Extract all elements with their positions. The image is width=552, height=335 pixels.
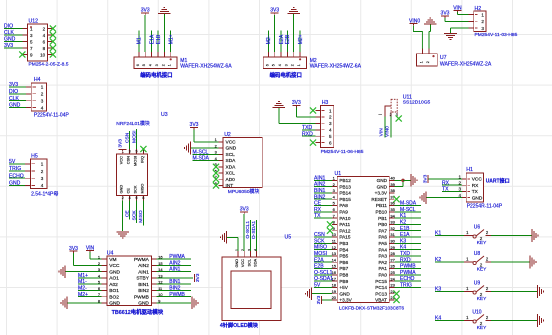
svg-text:M2-: M2- [266, 35, 272, 44]
svg-text:IRQ: IRQ [139, 156, 144, 163]
svg-text:KEY: KEY [477, 325, 487, 331]
svg-text:PB4: PB4 [339, 247, 348, 252]
svg-text:U2: U2 [224, 132, 231, 138]
svg-text:H4: H4 [34, 77, 41, 83]
svg-text:PB5: PB5 [339, 254, 348, 259]
svg-text:SCL: SCL [226, 152, 236, 158]
svg-text:PM254V-11-03-H85: PM254V-11-03-H85 [475, 32, 518, 38]
svg-text:PB10: PB10 [376, 210, 388, 215]
svg-text:+3.3V: +3.3V [375, 191, 388, 196]
svg-text:KEY: KEY [477, 296, 487, 302]
svg-text:40: 40 [390, 176, 395, 181]
svg-text:3: 3 [329, 121, 332, 126]
svg-text:PA11: PA11 [339, 222, 350, 227]
svg-text:PA12: PA12 [339, 228, 351, 233]
svg-text:32: 32 [390, 226, 395, 231]
svg-text:PC13: PC13 [375, 291, 387, 296]
svg-text:GND: GND [377, 184, 388, 189]
svg-text:6: 6 [136, 196, 138, 200]
svg-text:2: 2 [161, 64, 165, 66]
svg-text:LCKFB-DKX-STM32F103C8T6: LCKFB-DKX-STM32F103C8T6 [339, 305, 405, 310]
svg-text:1: 1 [41, 162, 44, 167]
svg-text:U9: U9 [474, 281, 481, 287]
svg-text:30: 30 [390, 239, 395, 244]
svg-text:WAFER-XH254WZ-2A: WAFER-XH254WZ-2A [440, 61, 492, 67]
svg-text:PB6: PB6 [339, 260, 348, 265]
svg-text:E2A: E2A [279, 34, 285, 44]
svg-text:H5: H5 [31, 154, 38, 160]
svg-text:1: 1 [168, 64, 172, 66]
svg-text:2: 2 [291, 64, 295, 66]
svg-text:VIN: VIN [378, 128, 384, 137]
svg-text:KEY: KEY [477, 267, 487, 273]
svg-text:BO2: BO2 [109, 294, 119, 300]
svg-text:CE: CE [126, 188, 131, 194]
svg-text:4: 4 [149, 64, 153, 66]
svg-text:3V3: 3V3 [422, 174, 428, 183]
svg-text:BO1: BO1 [109, 288, 119, 294]
svg-text:4针脚OLED模块: 4针脚OLED模块 [220, 321, 259, 329]
svg-text:PB0: PB0 [378, 222, 387, 227]
svg-text:GND: GND [109, 269, 120, 275]
svg-text:MISO: MISO [139, 184, 144, 194]
svg-text:26: 26 [390, 264, 395, 269]
svg-text:PA1: PA1 [378, 266, 387, 271]
svg-text:38: 38 [390, 188, 395, 193]
svg-text:PB7: PB7 [339, 266, 348, 271]
svg-text:3: 3 [129, 150, 131, 154]
svg-text:3V3: 3V3 [195, 273, 201, 282]
svg-text:31: 31 [390, 232, 395, 237]
svg-text:PA3: PA3 [378, 254, 387, 259]
svg-text:8: 8 [142, 196, 144, 200]
svg-text:6: 6 [265, 64, 269, 66]
svg-text:PB11: PB11 [376, 203, 388, 208]
svg-text:A02: A02 [109, 282, 118, 288]
svg-text:M1-: M1- [137, 35, 143, 44]
svg-text:U8: U8 [474, 251, 481, 257]
svg-text:M2+: M2+ [298, 34, 304, 44]
svg-text:KEY: KEY [477, 240, 487, 246]
svg-text:1: 1 [419, 61, 423, 63]
svg-text:PA7: PA7 [378, 228, 387, 233]
svg-text:PA2: PA2 [378, 260, 387, 265]
svg-text:5: 5 [329, 134, 332, 139]
svg-text:PA4: PA4 [378, 247, 387, 252]
svg-text:E2B: E2B [285, 34, 291, 44]
svg-text:CSN: CSN [126, 156, 131, 164]
svg-text:SDA: SDA [253, 258, 258, 266]
svg-text:PA15: PA15 [339, 235, 351, 240]
svg-text:PM254V-11-06-H85: PM254V-11-06-H85 [321, 149, 364, 155]
svg-text:编码电机接口: 编码电机接口 [140, 71, 172, 79]
svg-text:GND: GND [234, 259, 239, 268]
svg-text:STBY: STBY [136, 276, 149, 282]
svg-text:GND: GND [472, 195, 483, 201]
svg-text:GND: GND [119, 185, 124, 194]
svg-text:2: 2 [122, 196, 124, 200]
svg-text:编码电机接口: 编码电机接口 [270, 71, 302, 79]
svg-text:20: 20 [332, 295, 337, 300]
svg-text:14: 14 [332, 257, 337, 262]
svg-text:27: 27 [390, 257, 395, 262]
svg-text:U12: U12 [29, 18, 39, 24]
svg-text:VCC: VCC [119, 156, 124, 164]
svg-text:SDA: SDA [226, 158, 237, 164]
svg-text:VCC: VCC [226, 140, 237, 146]
svg-text:AIN2: AIN2 [138, 263, 149, 269]
svg-text:BIN2: BIN2 [138, 288, 149, 294]
svg-text:PC14: PC14 [375, 285, 387, 290]
svg-text:29: 29 [390, 245, 395, 250]
svg-text:2: 2 [481, 19, 484, 24]
svg-text:SS12D10G5: SS12D10G5 [403, 100, 431, 106]
svg-text:1: 1 [41, 85, 44, 90]
svg-text:MISO: MISO [138, 210, 144, 223]
svg-text:E1A: E1A [149, 34, 155, 44]
svg-text:3: 3 [284, 64, 288, 66]
svg-text:VBAT: VBAT [375, 298, 387, 303]
svg-text:PC15: PC15 [375, 279, 387, 284]
svg-text:18: 18 [332, 283, 337, 288]
svg-text:15: 15 [332, 264, 337, 269]
svg-text:O-SDA1: O-SDA1 [251, 221, 257, 239]
svg-text:RX: RX [472, 183, 479, 189]
svg-text:GND: GND [377, 178, 388, 183]
svg-text:25: 25 [390, 270, 395, 275]
svg-text:VM: VM [109, 257, 116, 263]
svg-text:13: 13 [332, 251, 337, 256]
svg-text:AIN1: AIN1 [138, 269, 149, 275]
svg-text:GND: GND [109, 301, 120, 307]
svg-text:33: 33 [390, 220, 395, 225]
svg-text:+3.3V: +3.3V [339, 298, 352, 303]
svg-text:2: 2 [426, 61, 430, 63]
svg-text:MOSI: MOSI [133, 156, 138, 166]
svg-text:XDA: XDA [226, 165, 237, 171]
svg-text:PB15: PB15 [339, 197, 351, 202]
svg-text:2: 2 [41, 92, 44, 97]
svg-text:28: 28 [390, 251, 395, 256]
svg-text:M1+: M1+ [169, 34, 175, 44]
svg-text:E1B: E1B [156, 34, 162, 44]
svg-text:TB6612电机驱动模块: TB6612电机驱动模块 [112, 308, 164, 316]
svg-text:3V3: 3V3 [117, 139, 123, 148]
svg-text:NRF24L01模块: NRF24L01模块 [116, 120, 150, 127]
svg-text:5: 5 [142, 64, 146, 66]
svg-text:U4: U4 [107, 250, 114, 256]
svg-text:6: 6 [136, 64, 140, 66]
svg-text:PWMB: PWMB [134, 294, 149, 300]
svg-text:PB1: PB1 [378, 216, 387, 221]
svg-text:RESET: RESET [371, 197, 387, 202]
svg-text:VCC: VCC [472, 177, 483, 183]
svg-text:PB8: PB8 [339, 273, 348, 278]
svg-text:5: 5 [136, 150, 138, 154]
svg-text:3: 3 [41, 99, 44, 104]
svg-text:H2: H2 [475, 6, 482, 12]
svg-text:AO1: AO1 [109, 276, 119, 282]
svg-text:34: 34 [390, 213, 395, 218]
svg-text:4: 4 [129, 196, 131, 200]
svg-text:VIN0: VIN0 [385, 126, 391, 137]
svg-text:2: 2 [390, 113, 392, 117]
svg-text:PWMA: PWMA [134, 257, 150, 263]
svg-text:3: 3 [481, 26, 484, 31]
svg-text:CE: CE [124, 210, 130, 218]
svg-text:PA10: PA10 [339, 216, 351, 221]
svg-text:24: 24 [390, 276, 395, 281]
svg-text:3V3: 3V3 [316, 295, 322, 304]
svg-text:SCK: SCK [131, 210, 137, 221]
svg-text:4: 4 [329, 128, 332, 133]
svg-text:6: 6 [329, 140, 332, 145]
svg-text:PB14: PB14 [339, 191, 351, 196]
svg-text:O-SCL1: O-SCL1 [245, 221, 251, 239]
svg-text:PA9: PA9 [339, 210, 348, 215]
svg-text:WAFER-XH254WZ-6A: WAFER-XH254WZ-6A [310, 64, 362, 70]
svg-text:VCC: VCC [109, 263, 120, 269]
svg-text:GND: GND [226, 146, 237, 152]
svg-text:TX: TX [472, 189, 479, 195]
svg-text:3: 3 [155, 64, 159, 66]
svg-text:U5: U5 [285, 234, 292, 240]
svg-text:U10: U10 [472, 310, 481, 316]
svg-text:U3: U3 [161, 112, 168, 118]
svg-text:P2254R-11-04P: P2254R-11-04P [467, 204, 503, 210]
svg-text:2.54-1*4P母: 2.54-1*4P母 [31, 191, 58, 197]
svg-text:+5V: +5V [339, 285, 348, 290]
svg-text:PA5: PA5 [378, 241, 387, 246]
svg-text:AD0: AD0 [226, 177, 236, 183]
svg-text:4: 4 [41, 105, 44, 110]
svg-text:39: 39 [390, 182, 395, 187]
svg-text:P2254V-11-04P: P2254V-11-04P [34, 113, 70, 119]
svg-text:PA6: PA6 [378, 235, 387, 240]
svg-text:1: 1 [329, 108, 332, 113]
svg-text:1: 1 [297, 64, 301, 66]
svg-text:H3: H3 [322, 100, 329, 106]
svg-text:H1: H1 [466, 167, 473, 173]
svg-text:SCL: SCL [246, 258, 251, 266]
svg-text:3: 3 [41, 176, 44, 181]
svg-text:INT: INT [226, 183, 234, 189]
svg-text:GND: GND [138, 301, 149, 307]
svg-text:10: 10 [40, 52, 46, 57]
svg-text:PB12: PB12 [339, 178, 351, 183]
svg-text:2: 2 [329, 115, 332, 120]
svg-text:PA8: PA8 [339, 203, 348, 208]
svg-text:PM254-2-05-Z-8.5: PM254-2-05-Z-8.5 [29, 62, 69, 68]
svg-text:1: 1 [481, 12, 484, 17]
svg-text:U7: U7 [440, 55, 447, 61]
svg-text:19: 19 [332, 289, 337, 294]
svg-text:U1: U1 [335, 171, 342, 177]
svg-text:5: 5 [272, 64, 276, 66]
svg-text:1: 1 [458, 174, 461, 179]
svg-text:PB13: PB13 [339, 184, 351, 189]
svg-text:UART接口: UART接口 [486, 178, 510, 185]
svg-text:U6: U6 [474, 225, 481, 231]
svg-text:PB9: PB9 [339, 279, 348, 284]
svg-text:35: 35 [390, 207, 395, 212]
svg-text:BIN1: BIN1 [138, 282, 149, 288]
svg-text:U11: U11 [403, 94, 412, 100]
svg-text:PA0: PA0 [378, 273, 387, 278]
svg-text:4: 4 [278, 64, 282, 66]
svg-text:2: 2 [41, 169, 44, 174]
svg-text:PB3: PB3 [339, 241, 348, 246]
svg-text:VCC: VCC [240, 259, 245, 267]
svg-text:4: 4 [41, 183, 44, 188]
svg-text:GND: GND [339, 291, 350, 296]
svg-text:WAFER-XH254WZ-6A: WAFER-XH254WZ-6A [180, 64, 232, 70]
svg-text:XCL: XCL [226, 171, 236, 177]
svg-text:23: 23 [390, 283, 395, 288]
svg-text:12: 12 [332, 245, 337, 250]
svg-text:SCK: SCK [133, 185, 138, 193]
